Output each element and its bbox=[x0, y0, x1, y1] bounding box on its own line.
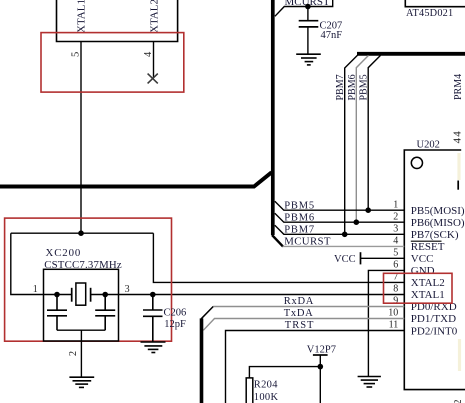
ground (U202 GND) bbox=[358, 377, 381, 388]
svg-text:PBM7: PBM7 bbox=[284, 225, 315, 236]
net label PBM6 (rotated) bbox=[347, 74, 358, 100]
junction dot XC200 right bbox=[102, 292, 108, 298]
svg-text:MCURST: MCURST bbox=[284, 236, 331, 248]
svg-text:U202: U202 bbox=[417, 140, 440, 151]
pin label PB6(MISO) bbox=[411, 217, 465, 229]
pin name XTAL2 (rotated) bbox=[148, 0, 160, 33]
resonator XC200 outline box bbox=[44, 269, 119, 341]
ground (under C207) bbox=[296, 54, 321, 65]
bus (thick, bottom vertical x=201.5) bbox=[200, 318, 204, 403]
yellow highlight marks (right edge) bbox=[457, 153, 461, 371]
label C207 bbox=[320, 21, 343, 32]
wire: XTAL1 net row (pin 8) bbox=[91, 294, 405, 296]
svg-text:GND: GND bbox=[411, 265, 435, 277]
wire: TRST net row (pin 11) bbox=[226, 331, 405, 403]
power symbol VCC (pin 5) bbox=[360, 252, 362, 264]
wire: RxDA diagonal from bus bbox=[201, 307, 213, 319]
net label PBM7 (rotated) bbox=[335, 74, 346, 100]
V12P7 bar bbox=[313, 354, 328, 356]
pin stub dash (right edge) bbox=[457, 181, 459, 190]
svg-text:PBM5: PBM5 bbox=[359, 74, 370, 100]
red highlight box 1 (connector pins) bbox=[41, 33, 184, 93]
svg-text:2: 2 bbox=[393, 211, 398, 222]
svg-text:VCC: VCC bbox=[334, 254, 356, 265]
junction dot PBM7 bbox=[342, 232, 348, 238]
svg-text:CSTCC7.37MHz: CSTCC7.37MHz bbox=[44, 259, 122, 271]
svg-text:12pF: 12pF bbox=[164, 319, 186, 330]
svg-text:44: 44 bbox=[451, 130, 463, 143]
svg-text:PRM4: PRM4 bbox=[453, 74, 464, 100]
wire: connector pin 4 stub bbox=[153, 42, 155, 79]
svg-text:AT45D021: AT45D021 bbox=[406, 8, 453, 19]
wire: XC200 bottom rail bbox=[57, 329, 105, 331]
built-in capacitor left of XC200 bbox=[47, 295, 67, 331]
wire: XTAL2 net row (pin 7) from resonator loop bbox=[153, 233, 404, 282]
net label RxDA bbox=[284, 296, 314, 307]
pin number 5 (rotated) bbox=[71, 52, 82, 57]
label VCC bbox=[334, 254, 356, 265]
wire: MCURST net row (pin 4, gray) bbox=[283, 245, 405, 247]
built-in capacitor right of XC200 bbox=[95, 295, 115, 331]
pin number 9 bbox=[393, 296, 398, 307]
svg-text:1: 1 bbox=[393, 199, 398, 210]
net label MCURST bbox=[284, 236, 331, 248]
wire: V12P7 down to bottom edge bbox=[319, 355, 321, 403]
svg-text:100K: 100K bbox=[254, 392, 279, 403]
IC U201 box corner (AT45D021, top right) bbox=[405, 0, 465, 7]
resistor R204 bbox=[246, 378, 253, 403]
svg-text:PBM5: PBM5 bbox=[284, 200, 315, 211]
svg-text:XTAL1: XTAL1 bbox=[76, 0, 88, 33]
svg-text:4: 4 bbox=[143, 51, 154, 57]
pin number 3 (XC200) bbox=[125, 284, 130, 295]
net label PBM5 (rotated) bbox=[359, 74, 370, 100]
junction dot PBM5 bbox=[365, 207, 371, 213]
junction dot resonator top node bbox=[78, 230, 84, 236]
pin label PD0/RXD bbox=[411, 301, 457, 313]
pin label PD2/INT0 bbox=[411, 325, 458, 337]
svg-text:R204: R204 bbox=[254, 380, 278, 391]
pin label GND bbox=[411, 265, 435, 277]
svg-text:PBM7: PBM7 bbox=[335, 74, 346, 100]
svg-text:1: 1 bbox=[33, 284, 38, 295]
pin label RESET (active low) bbox=[411, 241, 445, 253]
wire: PBM7 diagonal from bus bbox=[345, 55, 358, 234]
junction dot XTAL1/C206 bbox=[150, 292, 156, 298]
junction dot MCURST/C207 bbox=[305, 4, 311, 10]
net label PBM5 bbox=[284, 200, 315, 211]
net label PBM6 bbox=[284, 212, 315, 223]
pin number 4 (rotated) bbox=[143, 51, 154, 57]
svg-text:PD2/INT0: PD2/INT0 bbox=[411, 325, 458, 337]
bus (thick, vertical x=272.8) bbox=[271, 0, 275, 235]
wire: RxDA net row (pin 9, gray) bbox=[213, 306, 404, 308]
svg-text:C206: C206 bbox=[164, 307, 187, 318]
svg-text:10: 10 bbox=[388, 308, 398, 319]
svg-text:5: 5 bbox=[393, 248, 398, 259]
svg-text:XTAL2: XTAL2 bbox=[411, 277, 445, 289]
crystal element of XC200 bbox=[72, 283, 91, 305]
pin number 5 bbox=[393, 248, 398, 259]
pin label VCC bbox=[411, 253, 434, 265]
red highlight box 2 (resonator) bbox=[5, 218, 172, 341]
pin label PB5(MOSI) bbox=[411, 205, 465, 217]
junction dot V12P7 bbox=[318, 364, 324, 370]
svg-text:47nF: 47nF bbox=[321, 30, 343, 41]
pin label PD1/TXD bbox=[411, 313, 456, 325]
svg-text:TRST: TRST bbox=[285, 320, 315, 331]
reference designator U202 bbox=[417, 140, 440, 151]
pin name XTAL1 (rotated) bbox=[76, 0, 88, 33]
junction dot XC200 left bbox=[54, 292, 60, 298]
wire: PBM7 net row (pin 3) bbox=[275, 225, 405, 234]
svg-text:8: 8 bbox=[393, 284, 398, 295]
wire: loop left side down to XC200 pin 1 bbox=[11, 233, 72, 294]
svg-text:PBM6: PBM6 bbox=[284, 212, 315, 223]
pin label XTAL2 bbox=[411, 277, 445, 289]
pin number 8 bbox=[393, 284, 398, 295]
svg-text:PB5(MOSI): PB5(MOSI) bbox=[411, 205, 465, 217]
wire: PBM6 diagonal+vertical (gray) bbox=[356, 55, 368, 222]
svg-text:9: 9 bbox=[393, 296, 398, 307]
connector J (top-left, XTAL module) bbox=[57, 0, 178, 42]
net label MCURST (top) bbox=[285, 0, 331, 8]
wire: V12P7 to R204 bbox=[249, 367, 320, 378]
bus (thick, left horizontal) bbox=[0, 172, 272, 186]
value CSTCC7.37MHz bbox=[44, 259, 122, 271]
value 100K bbox=[254, 392, 279, 403]
wire: C207 to ground bbox=[307, 27, 309, 54]
pin number 2 (XC200, rotated) bbox=[68, 351, 79, 356]
value 12pF bbox=[164, 319, 186, 330]
pin number 6 bbox=[393, 260, 398, 271]
pin number 3 bbox=[393, 224, 398, 235]
svg-text:2: 2 bbox=[68, 351, 79, 356]
svg-text:3: 3 bbox=[125, 284, 130, 295]
value 47nF bbox=[321, 30, 343, 41]
wire: connector pin 5 down to resonator node bbox=[80, 42, 82, 234]
svg-text:PD1/TXD: PD1/TXD bbox=[411, 313, 456, 325]
power symbol V12P7 bbox=[307, 345, 336, 356]
pin label PB7(SCK) bbox=[411, 229, 459, 241]
wire: PBM6 net row (pin 2) bbox=[275, 213, 405, 222]
pin number 1 (XC200) bbox=[33, 284, 38, 295]
red highlight box 3 (XTAL pins of U202) bbox=[384, 273, 453, 303]
svg-text:PB7(SCK): PB7(SCK) bbox=[411, 229, 459, 241]
svg-text:VCC: VCC bbox=[411, 253, 434, 265]
pin number 2 bbox=[393, 211, 398, 222]
reference designator XC200 bbox=[46, 247, 82, 259]
svg-text:RESET: RESET bbox=[411, 241, 445, 253]
wire: resonator loop top bbox=[11, 232, 154, 234]
svg-text:TxDA: TxDA bbox=[284, 308, 314, 319]
wire: MCURST net at top bbox=[275, 0, 333, 16]
wire: VCC bar to pin 5 bbox=[361, 257, 405, 259]
pin-1 indicator circle bbox=[411, 157, 422, 168]
junction dot PBM6 bbox=[354, 219, 360, 225]
pin number 11 bbox=[389, 320, 399, 331]
pin number 10 bbox=[388, 308, 398, 319]
net label PRM4 (rotated, right edge) bbox=[453, 74, 464, 100]
label AT45D021 bbox=[406, 8, 453, 19]
net label TxDA bbox=[284, 308, 314, 319]
IC U202 box bbox=[404, 150, 465, 390]
pin number 44 (rotated, top) bbox=[451, 130, 463, 143]
label C206 bbox=[164, 307, 187, 318]
svg-text:4: 4 bbox=[393, 236, 398, 247]
svg-text:XTAL1: XTAL1 bbox=[411, 289, 445, 301]
svg-text:5: 5 bbox=[71, 52, 82, 57]
svg-text:11: 11 bbox=[389, 320, 399, 331]
svg-text:RxDA: RxDA bbox=[284, 296, 314, 307]
svg-text:PB6(MISO): PB6(MISO) bbox=[411, 217, 465, 229]
pin number 2 (rotated, bottom edge) bbox=[453, 400, 464, 403]
pin number 1 bbox=[393, 199, 398, 210]
wire: XC200 pin 2 to ground bbox=[80, 330, 82, 377]
wire: PBM5 diagonal+vertical bbox=[368, 55, 380, 210]
bus taper into MCURST wire bbox=[272, 235, 283, 247]
ground (XC200 pin 2) bbox=[69, 377, 94, 387]
capacitor C206 bbox=[143, 295, 163, 343]
wire: PBM5 net row (pin 1) bbox=[275, 201, 405, 210]
pin number 4 bbox=[393, 236, 398, 247]
pin label XTAL1 bbox=[411, 289, 445, 301]
wire: TxDA net row (pin 10, gray) bbox=[203, 319, 404, 331]
wire: dot down to C207 bbox=[307, 7, 309, 21]
no-connect X on pin 4 bbox=[148, 74, 158, 84]
svg-text:3: 3 bbox=[393, 224, 398, 235]
svg-text:V12P7: V12P7 bbox=[307, 345, 336, 356]
net label PBM7 bbox=[284, 225, 315, 236]
capacitor C207 bbox=[299, 21, 319, 27]
svg-text:XTAL2: XTAL2 bbox=[148, 0, 160, 33]
ground (under C206) bbox=[141, 342, 166, 353]
reference designator R204 bbox=[254, 380, 278, 391]
svg-text:XC200: XC200 bbox=[46, 247, 82, 259]
net label TRST bbox=[285, 320, 315, 331]
pin number 7 bbox=[393, 272, 398, 283]
svg-text:PBM6: PBM6 bbox=[347, 74, 358, 100]
svg-text:2: 2 bbox=[453, 400, 464, 403]
svg-text:6: 6 bbox=[393, 260, 398, 271]
bus (thick, top right horizontal) bbox=[357, 52, 465, 56]
wire: GND pin 6 to ground bbox=[368, 270, 404, 376]
